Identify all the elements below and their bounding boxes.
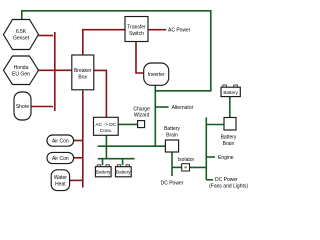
transfer switch xyxy=(125,17,148,42)
air con 2 xyxy=(47,152,74,163)
wire: shore to AC bus xyxy=(31,106,53,108)
svg-text:Battery: Battery xyxy=(223,90,238,95)
svg-text:Inverter: Inverter xyxy=(148,72,165,78)
wire: breaker box top to transfer switch xyxy=(83,30,125,55)
svg-text:DC Power: DC Power xyxy=(215,177,238,183)
wire: battery brain 1 to isolator xyxy=(172,166,182,168)
svg-text:Charge: Charge xyxy=(133,106,150,112)
svg-text:AC Power: AC Power xyxy=(168,27,191,33)
AC to DC converter xyxy=(94,117,119,135)
svg-text:Battery: Battery xyxy=(116,170,131,175)
wire: isolator to right vertical xyxy=(190,166,207,168)
shore power connector xyxy=(14,92,31,120)
wire: inverter bottom vertical down to DC bus xyxy=(154,85,156,146)
wire: transfer switch to AC power label xyxy=(148,29,166,31)
wire: engine stub xyxy=(206,156,215,158)
svg-text:Transfer: Transfer xyxy=(127,25,146,31)
svg-text:EU Gen: EU Gen xyxy=(12,71,30,77)
breaker box xyxy=(72,55,94,90)
generator Honda EU Gen hexagon xyxy=(4,56,39,85)
svg-text:Conv.: Conv. xyxy=(100,128,112,134)
wire: breaker box right to converter xyxy=(94,70,106,117)
svg-text:Brain: Brain xyxy=(166,132,178,138)
svg-text:Box: Box xyxy=(78,75,87,81)
svg-text:Heat: Heat xyxy=(55,182,66,188)
wire: genset to AC bus xyxy=(39,35,54,37)
wire: battery 1 stub xyxy=(102,159,104,166)
svg-text:Switch: Switch xyxy=(129,31,144,37)
svg-text:6.5K: 6.5K xyxy=(16,29,27,35)
wire: converter bottom vertical xyxy=(105,135,107,158)
battery brain 2 box xyxy=(224,118,236,131)
wire: water heater stub xyxy=(70,179,83,181)
svg-text:(Fans and Lights): (Fans and Lights) xyxy=(209,183,248,189)
generator 6.5K Genset hexagon xyxy=(4,20,39,50)
water heater xyxy=(51,170,69,191)
wire: DC bus 2 (batteries) xyxy=(98,158,135,160)
svg-text:Battery: Battery xyxy=(96,170,111,175)
battery brain 1 box xyxy=(165,140,178,152)
svg-text:Alternator: Alternator xyxy=(172,105,194,111)
battery right (chassis battery) xyxy=(221,85,240,97)
isolator box xyxy=(182,164,190,171)
wire: breaker box bottom AC loads bus xyxy=(82,91,84,188)
wire: branch to battery brain 2 xyxy=(206,124,224,126)
wire: DC bus 1 to battery brain 1 xyxy=(98,145,166,147)
wire: converter to charge wizard xyxy=(118,123,137,125)
svg-text:Genset: Genset xyxy=(13,36,30,42)
svg-text:AC -> DC: AC -> DC xyxy=(95,122,116,128)
svg-text:Shore: Shore xyxy=(16,104,30,110)
battery 2 (house) xyxy=(116,165,132,177)
svg-text:Battery: Battery xyxy=(164,126,180,132)
svg-text:Engine: Engine xyxy=(218,155,234,161)
wire: DC power fans stub xyxy=(206,179,213,181)
battery 1 (house) xyxy=(95,165,111,177)
svg-text:Air Con: Air Con xyxy=(52,139,69,145)
svg-text:DC Power: DC Power xyxy=(161,180,184,186)
svg-text:Breaker: Breaker xyxy=(74,68,92,74)
air con 1 xyxy=(47,135,74,146)
wire: transfer switch bottom to inverter xyxy=(136,42,144,74)
wire: battery brain 1 down to DC power xyxy=(171,152,173,176)
wire: right DC vertical xyxy=(205,117,207,179)
wire: air con 2 stub xyxy=(74,157,83,159)
svg-text:Honda: Honda xyxy=(14,65,29,71)
wire: alternator stub xyxy=(155,106,168,108)
svg-text:Wizard: Wizard xyxy=(134,113,150,119)
svg-text:Air Con: Air Con xyxy=(52,156,69,162)
wire: air con 1 stub xyxy=(74,140,83,142)
wire: battery right to battery brain 2 xyxy=(229,97,231,118)
svg-text:Brain: Brain xyxy=(223,141,235,147)
inverter xyxy=(144,63,169,85)
wire: green loop from genset top across top, down right side, to inverter bottom net xyxy=(22,11,211,91)
wire: battery 2 stub xyxy=(122,159,124,166)
charge wizard box xyxy=(138,121,145,128)
wire: left AC bus vertical xyxy=(54,32,56,111)
wire: honda to breaker box xyxy=(39,69,72,71)
svg-text:Battery: Battery xyxy=(221,134,237,140)
svg-text:Isolator: Isolator xyxy=(178,157,195,163)
svg-text:Water: Water xyxy=(54,175,67,181)
